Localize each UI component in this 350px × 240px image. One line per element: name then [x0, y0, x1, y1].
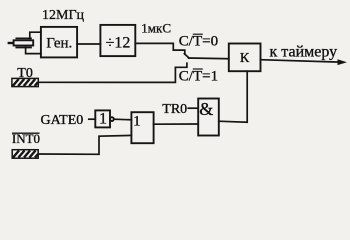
commutator box K: [229, 44, 261, 72]
INT0 input source hatched box: [12, 150, 38, 159]
svg-text:÷12: ÷12: [106, 34, 131, 51]
crystal BQ1 top electrode plate: [16, 37, 31, 39]
switch blade: [184, 54, 189, 58]
svg-text:TR0: TR0: [162, 102, 187, 117]
svg-text:12МГц: 12МГц: [42, 8, 85, 23]
divider box ÷12: [100, 25, 135, 56]
crystal BQ1 bottom electrode plate: [16, 47, 31, 49]
crystal BQ1 body: [14, 40, 34, 45]
wire inverter to OR gate: [114, 118, 132, 121]
wire K bottom to AND output: [219, 71, 247, 122]
AND gate box &: [198, 99, 219, 136]
svg-text:К: К: [240, 51, 250, 66]
wire crystal bottom lead to generator: [26, 48, 41, 54]
wire divider output to switch contact C/T=0: [135, 43, 185, 54]
arrowhead: [338, 59, 348, 65]
wire generator to divider: [77, 43, 100, 45]
svg-text:Ген.: Ген.: [46, 36, 72, 52]
wire crystal top lead to generator: [30, 32, 41, 38]
svg-text:1мкС: 1мкС: [141, 21, 171, 36]
T0 input source hatched box: [12, 78, 38, 86]
wire OR gate to AND gate: [154, 123, 199, 125]
wire T0 to switch contact C/T=1: [38, 63, 187, 82]
wire switch pole to K: [189, 57, 229, 60]
svg-text:1: 1: [99, 111, 107, 128]
inverter output bubble: [110, 117, 114, 121]
svg-text:к таймеру: к таймеру: [270, 43, 338, 60]
OR gate box 1: [131, 112, 153, 143]
svg-text:1: 1: [133, 114, 141, 130]
svg-text:C/T=0: C/T=0: [179, 34, 218, 50]
wire TR0 dash to AND gate: [188, 107, 198, 109]
wire K output to timer with arrow: [261, 60, 340, 62]
wire INT0 to OR gate: [38, 135, 131, 154]
generator box Ген: [41, 27, 77, 58]
inverter box 1 (NOT): [95, 110, 110, 127]
svg-text:GATE0: GATE0: [41, 113, 84, 128]
wire GATE0 dash to inverter: [89, 118, 96, 120]
svg-text:C/T=1: C/T=1: [179, 68, 218, 84]
crystal BQ1 stub lead: [8, 42, 14, 44]
svg-text:&: &: [199, 99, 213, 119]
